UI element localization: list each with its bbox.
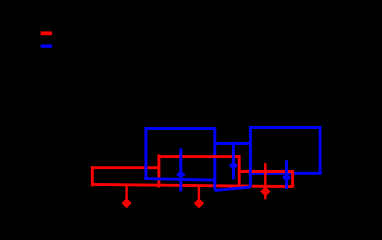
blue step lower: [215, 187, 251, 190]
red long bottom line: [92, 184, 292, 186]
blue box B bottom edge: [249, 172, 322, 175]
blue CI line 1: [179, 148, 182, 191]
blue box A top edge: [144, 127, 216, 130]
blue CI line 3: [285, 160, 288, 189]
blue CI line 2: [232, 142, 235, 180]
blue box B right edge: [319, 126, 322, 175]
red box R3 top edge: [239, 170, 292, 173]
blue diamond D1: [176, 171, 186, 179]
legend swatch red: [41, 31, 52, 35]
blue diamond D3: [282, 174, 292, 182]
blue box B left edge: [249, 126, 252, 187]
red marker M2 ring: [196, 200, 203, 207]
blue box B top edge: [249, 126, 322, 129]
red whisker W1: [125, 185, 127, 206]
red marker M3 ring: [262, 188, 269, 195]
red box R1 left edge: [91, 166, 94, 186]
red shared edge R2/R3: [238, 155, 241, 187]
red marker M1 ring: [123, 200, 130, 207]
red CI line W3: [264, 163, 266, 199]
blue box A left edge: [144, 127, 147, 180]
red whisker W2: [198, 186, 200, 207]
blue diamond D2: [229, 162, 239, 170]
blue box A bottom edge: [144, 179, 216, 181]
red box R1 top edge: [92, 166, 159, 169]
blue box A right edge: [213, 127, 216, 190]
red box R3 right edge: [291, 170, 294, 188]
red shared edge R1/R2: [157, 154, 160, 187]
blue step upper: [213, 142, 251, 145]
red box R2 top edge: [159, 155, 239, 158]
legend swatch blue: [41, 44, 53, 47]
